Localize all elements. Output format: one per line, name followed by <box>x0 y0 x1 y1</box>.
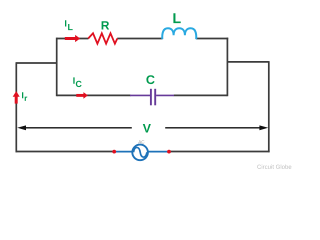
wire right outer vertical <box>268 61 270 152</box>
wire right stub <box>227 61 268 63</box>
label IL <box>65 20 73 30</box>
wire left stub <box>16 62 57 64</box>
current arrow Ir (upward on left outer wire) <box>15 96 18 103</box>
voltage V line left part <box>24 127 132 129</box>
resistor R <box>88 33 117 43</box>
current arrow IC <box>76 94 84 97</box>
junction dot left <box>112 150 116 154</box>
AC source lead right (blue) <box>148 151 170 153</box>
watermark <box>257 164 291 168</box>
wire resistor-to-inductor <box>117 38 162 40</box>
wire inductor-to-right-bus <box>196 38 228 40</box>
AC source circle <box>132 145 148 161</box>
wire middle branch right (capacitor lead to bus) <box>174 94 228 96</box>
wire top-left segment (bus to resistor) <box>57 38 89 40</box>
label Ir <box>22 92 27 101</box>
wire right inner bus <box>226 38 228 97</box>
wire bottom left segment <box>16 151 115 153</box>
V arrowhead left <box>17 125 26 130</box>
current arrow IL <box>65 37 76 40</box>
resistor R label <box>102 21 110 29</box>
V arrowhead right <box>259 125 268 130</box>
capacitor C lead left (purple) <box>130 94 150 96</box>
AC source tiny label <box>138 140 144 143</box>
inductor L label <box>173 13 180 23</box>
wire left outer vertical <box>15 62 17 152</box>
wire middle branch left (bus to capacitor lead) <box>57 94 131 96</box>
AC source lead left (blue) <box>114 151 133 153</box>
capacitor C plate 1 <box>150 89 152 106</box>
label V <box>143 124 151 133</box>
label IC <box>73 77 81 87</box>
voltage V line right part <box>165 127 260 129</box>
inductor L <box>162 28 196 39</box>
capacitor C lead right (purple) <box>156 94 174 96</box>
AC source sine wave <box>134 147 147 157</box>
wire left inner bus <box>56 38 58 97</box>
capacitor C label <box>146 75 154 84</box>
capacitor C plate 2 <box>154 89 156 106</box>
wire bottom right segment <box>169 151 270 153</box>
junction dot right <box>167 150 171 154</box>
